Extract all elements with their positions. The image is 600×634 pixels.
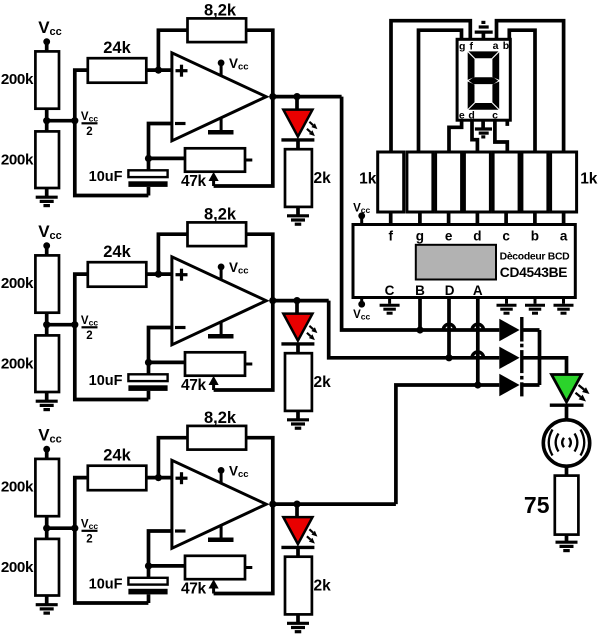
capacitor C2 10uF	[128, 374, 167, 381]
wire Vcc/2 rail and capacitor return (osc 3)	[75, 478, 149, 603]
node + input junction (osc 1)	[155, 67, 162, 74]
decoder U4 CD4543BE	[353, 225, 575, 298]
wire 24k to op-amp + input	[146, 476, 172, 480]
node Vcc dot (osc 2)	[43, 242, 50, 249]
resistor R3a 200k	[35, 459, 59, 516]
potentiometer R1e wiper arrow	[212, 179, 215, 186]
wire R2b to ground	[45, 392, 49, 400]
wire junction to node Vcc/2	[47, 119, 75, 123]
wire output (osc 3)	[273, 502, 396, 506]
svg-text:D: D	[445, 283, 455, 298]
svg-text:10uF: 10uF	[89, 576, 123, 592]
node op-amp output (osc 2)	[269, 297, 276, 304]
svg-text:Vcc: Vcc	[81, 519, 98, 532]
wire LED anode (osc 3)	[295, 504, 299, 518]
wire bus segment f (outer left)	[391, 21, 470, 152]
resistor R1c 24k	[88, 58, 147, 82]
node Vcc/2 (osc 2)	[71, 321, 78, 328]
node Vcc dot (osc 3)	[43, 446, 50, 453]
op-amp U3 Vcc pin	[220, 470, 223, 483]
node Vcc/2 (osc 1)	[71, 117, 78, 124]
svg-text:b: b	[531, 229, 539, 244]
wire junction to node Vcc/2	[47, 526, 75, 530]
svg-text:24k: 24k	[103, 243, 131, 261]
wire resistor c to decoder pin	[504, 212, 508, 225]
display segment b	[492, 52, 499, 80]
ground (decoder right 1)	[505, 298, 508, 304]
svg-text:f: f	[388, 229, 393, 244]
capacitor C1 10uF	[128, 170, 167, 177]
svg-text:A: A	[473, 283, 483, 298]
resistor R3f 2k	[285, 557, 312, 615]
wire osc3 output up to diode row	[396, 385, 499, 504]
wire resistor g to decoder pin	[418, 212, 422, 225]
wire bus segment a (outer right)	[497, 21, 564, 152]
svg-text:47k: 47k	[181, 581, 206, 598]
op-amp U1	[172, 53, 266, 141]
wire Vcc to R1a	[45, 42, 49, 52]
svg-text:200k: 200k	[1, 559, 34, 576]
resistor R1k-d 1k	[464, 152, 490, 212]
wire + input to feedback resistor	[158, 30, 187, 70]
7-segment display DIS1	[457, 39, 510, 120]
svg-text:b: b	[503, 40, 509, 52]
resistor R1k-g 1k	[407, 152, 433, 212]
junction dot divider (osc 2)	[43, 321, 50, 328]
wire - input to integrator node	[149, 124, 172, 159]
svg-text:Vcc: Vcc	[81, 111, 98, 124]
wire + input to feedback resistor	[158, 438, 187, 478]
wire integrator node to capacitor	[147, 566, 151, 578]
node LED branch (osc 3)	[293, 501, 300, 508]
wire integrator node to 47k	[149, 361, 186, 365]
green LED D7	[552, 375, 582, 403]
red LED D2	[283, 314, 312, 341]
potentiometer R3e 47k	[185, 556, 245, 579]
svg-text:g: g	[416, 229, 424, 244]
ground (decoder right 3)	[562, 298, 565, 304]
node Vcc decoder top	[358, 212, 365, 219]
svg-text:f: f	[470, 41, 474, 53]
wire 24k to op-amp + input	[146, 68, 172, 72]
wire hop D over wire1	[443, 324, 455, 330]
wire R2a to junction	[45, 313, 49, 336]
wire LED anode (osc 2)	[295, 301, 299, 315]
op-amp U2 Vcc pin	[220, 267, 223, 280]
wire 2k to ground	[296, 411, 300, 419]
wire 2k to ground	[296, 614, 300, 622]
potentiometer R1e 47k	[185, 148, 245, 171]
svg-text:Vcc: Vcc	[81, 315, 98, 328]
node Vcc dot (osc 1)	[43, 38, 50, 45]
wire R1b to ground	[45, 188, 49, 196]
svg-text:a: a	[493, 40, 499, 52]
op-amp U3 ground pin	[220, 525, 223, 537]
svg-text:d: d	[473, 229, 481, 244]
op-amp U2 ground pin	[220, 322, 223, 334]
ground (osc 1 LED)	[287, 214, 309, 217]
svg-text:e: e	[459, 109, 465, 121]
svg-text:8,2k: 8,2k	[204, 2, 237, 20]
svg-text:1k: 1k	[359, 171, 377, 188]
resistor R1k-c 1k	[493, 152, 519, 212]
node op-amp output (osc 1)	[269, 93, 276, 100]
display segment g	[469, 77, 499, 84]
svg-text:2: 2	[86, 534, 92, 546]
svg-text:200k: 200k	[1, 152, 34, 169]
ground (display common bottom)	[481, 120, 485, 127]
node LED branch (osc 2)	[293, 297, 300, 304]
svg-text:200k: 200k	[1, 275, 34, 292]
svg-text:10uF: 10uF	[89, 373, 123, 389]
ground (osc 1 divider)	[36, 196, 58, 199]
op-amp U3	[172, 460, 266, 548]
wire integrator node to capacitor	[147, 158, 151, 170]
node integrator junction (osc 3)	[145, 562, 152, 569]
resistor R1d 8,2k feedback	[188, 18, 247, 42]
wire resistor f to decoder pin	[389, 212, 393, 225]
svg-text:8,2k: 8,2k	[204, 206, 237, 224]
display segment d	[469, 103, 499, 110]
wire cathode stub 1	[522, 328, 540, 332]
svg-text:g: g	[459, 41, 465, 53]
wire diode common cathode dashed bar	[520, 317, 523, 342]
wire cathode stub 2	[522, 356, 540, 360]
ground (display common top, inverted)	[482, 32, 486, 39]
ground (osc 3 LED)	[287, 622, 309, 625]
wire output (osc 1)	[273, 95, 342, 99]
wire R1a to junction	[45, 109, 49, 132]
diode D6	[499, 374, 519, 396]
red LED D1	[283, 110, 312, 137]
wire feedback resistor to output node and wiper	[214, 30, 273, 186]
wire decoder pin B to wire1	[418, 298, 422, 331]
wire 2k to ground	[296, 207, 300, 215]
resistor R1k-b 1k	[522, 152, 548, 212]
resistor R2b 200k	[35, 335, 59, 392]
svg-text:B: B	[415, 283, 425, 298]
resistor R3b 200k	[35, 539, 59, 596]
resistor R3d 8,2k feedback	[188, 426, 247, 450]
node op-amp output (osc 3)	[269, 501, 276, 508]
wire LED anode (osc 1)	[295, 97, 299, 111]
resistor R2f 2k	[285, 353, 312, 411]
wire LED cathode to 2k	[296, 547, 300, 556]
node Vcc/2 (osc 3)	[71, 525, 78, 532]
wire display pin c to resistor	[495, 120, 507, 152]
svg-text:47k: 47k	[181, 173, 206, 190]
svg-text:c: c	[502, 229, 510, 244]
wire Vcc to R3a	[45, 449, 49, 459]
wire bus segment b (inner right)	[509, 30, 535, 152]
resistor R1b 200k	[35, 131, 59, 188]
resistor R2d 8,2k feedback	[188, 222, 247, 246]
wire 75 ohm to ground	[565, 535, 569, 541]
ground (osc 2 divider)	[36, 400, 58, 403]
wire osc2 output down to diode row	[329, 301, 500, 358]
svg-text:75: 75	[524, 492, 550, 518]
wire Vcc to R2a	[45, 246, 49, 256]
potentiometer R2e 47k	[185, 352, 245, 375]
node Vcc decoder bottom	[358, 301, 365, 308]
wire resistor d to decoder pin	[476, 212, 480, 225]
wire LED cathode to 2k	[296, 344, 300, 353]
resistor R1f 2k	[285, 149, 312, 207]
wire display pin d to resistor	[472, 120, 477, 152]
wire - input to integrator node	[149, 531, 172, 566]
wire 24k to op-amp + input	[146, 272, 172, 276]
wire R3b to ground	[45, 596, 49, 604]
svg-text:200k: 200k	[1, 356, 34, 373]
ground (decoder right 2)	[534, 298, 537, 304]
wire hop A over wire2	[472, 352, 484, 358]
svg-text:Vcc: Vcc	[353, 203, 370, 216]
node junction B on wire1	[416, 326, 423, 333]
svg-text:Dècodeur BCD: Dècodeur BCD	[500, 252, 571, 263]
resistor R75 75	[555, 476, 579, 535]
potentiometer R3e wiper arrow	[212, 587, 215, 594]
node junction D on wire2	[445, 354, 452, 361]
wire osc1 output down to diode row	[342, 97, 500, 330]
svg-text:1k: 1k	[580, 171, 598, 188]
svg-text:47k: 47k	[181, 377, 206, 394]
potentiometer R2e wiper arrow	[212, 383, 215, 390]
wire cathode stub 3	[522, 383, 540, 387]
display segment f	[468, 52, 475, 80]
svg-text:24k: 24k	[103, 447, 131, 465]
resistor R3c 24k	[88, 466, 147, 491]
wire LED cathode to 2k	[296, 140, 300, 149]
resistor R1a 200k	[35, 51, 59, 108]
ground (osc 2 LED)	[287, 418, 309, 421]
wire green LED to speaker	[565, 405, 569, 420]
junction dot divider (osc 3)	[43, 525, 50, 532]
red LED D3	[283, 517, 312, 544]
wire output (osc 2)	[273, 299, 329, 303]
wire hop A over wire1	[472, 324, 484, 330]
svg-text:2k: 2k	[314, 374, 332, 391]
wire R3a to junction	[45, 516, 49, 539]
wire - input to integrator node	[149, 328, 172, 363]
resistor R1k-f 1k	[378, 152, 404, 212]
ground (speaker chain)	[556, 541, 578, 544]
svg-text:a: a	[560, 229, 568, 244]
wire decoder pin D to wire2	[447, 298, 451, 358]
ground (decoder pin C)	[388, 298, 391, 304]
capacitor C3 10uF	[128, 578, 167, 585]
wire decoder pin A to wire3	[476, 298, 480, 386]
wire resistor e to decoder pin	[447, 212, 451, 225]
diode D5	[499, 347, 519, 369]
node LED branch (osc 1)	[293, 93, 300, 100]
op-amp U1 Vcc pin	[220, 63, 223, 76]
wire display pin e to resistor	[449, 120, 462, 152]
svg-text:200k: 200k	[1, 479, 34, 496]
svg-text:2: 2	[86, 126, 92, 138]
svg-text:2: 2	[86, 330, 92, 342]
wire resistor a to decoder pin	[562, 212, 566, 225]
wire Vcc/2 rail and capacitor return (osc 1)	[75, 70, 149, 195]
op-amp U2	[172, 257, 266, 345]
wire junction to node Vcc/2	[47, 323, 75, 327]
wire integrator node to capacitor	[147, 362, 151, 374]
resistor R2c 24k	[88, 262, 147, 287]
svg-text:10uF: 10uF	[89, 169, 123, 185]
resistor R1k-e 1k	[436, 152, 462, 212]
wire integrator node to 47k	[149, 564, 186, 568]
wire Vcc/2 rail and capacitor return (osc 2)	[75, 274, 149, 399]
junction dot divider (osc 1)	[43, 117, 50, 124]
wire speaker to 75 ohm	[565, 466, 569, 475]
wire display stub bottom right	[505, 120, 509, 126]
wire + input to feedback resistor	[158, 234, 187, 274]
display segment e	[468, 82, 475, 110]
wire resistor b to decoder pin	[533, 212, 537, 225]
node + input junction (osc 2)	[155, 271, 162, 278]
wire feedback resistor to output node and wiper	[214, 438, 273, 594]
op-amp U1 ground pin	[220, 118, 223, 130]
svg-text:2k: 2k	[314, 578, 332, 595]
diode D4	[499, 319, 519, 341]
ground (osc 3 divider)	[36, 603, 58, 606]
wire cathode bus vertical	[538, 330, 542, 385]
wire cathode bus to green LED	[540, 358, 567, 376]
svg-text:c: c	[492, 109, 498, 121]
svg-text:C: C	[385, 283, 395, 298]
node + input junction (osc 3)	[155, 474, 162, 481]
display segment a	[469, 51, 499, 58]
svg-text:CD4543BE: CD4543BE	[500, 265, 567, 280]
svg-text:Vcc: Vcc	[353, 309, 370, 322]
resistor R1k-a 1k	[551, 152, 577, 212]
svg-text:2k: 2k	[314, 170, 332, 187]
wire bus segment g (inner left)	[419, 30, 462, 152]
svg-text:d: d	[468, 109, 474, 121]
svg-text:e: e	[445, 229, 453, 244]
resistor R2a 200k	[35, 255, 59, 312]
svg-text:8,2k: 8,2k	[204, 409, 237, 427]
display segment c	[492, 82, 499, 110]
speaker SP1	[543, 420, 589, 466]
svg-text:200k: 200k	[1, 71, 34, 88]
svg-text:24k: 24k	[103, 39, 131, 57]
node integrator junction (osc 2)	[145, 359, 152, 366]
node junction A on wire3	[474, 381, 481, 388]
wire feedback resistor to output node and wiper	[214, 234, 273, 390]
wire integrator node to 47k	[149, 157, 186, 161]
node integrator junction (osc 1)	[145, 155, 152, 162]
